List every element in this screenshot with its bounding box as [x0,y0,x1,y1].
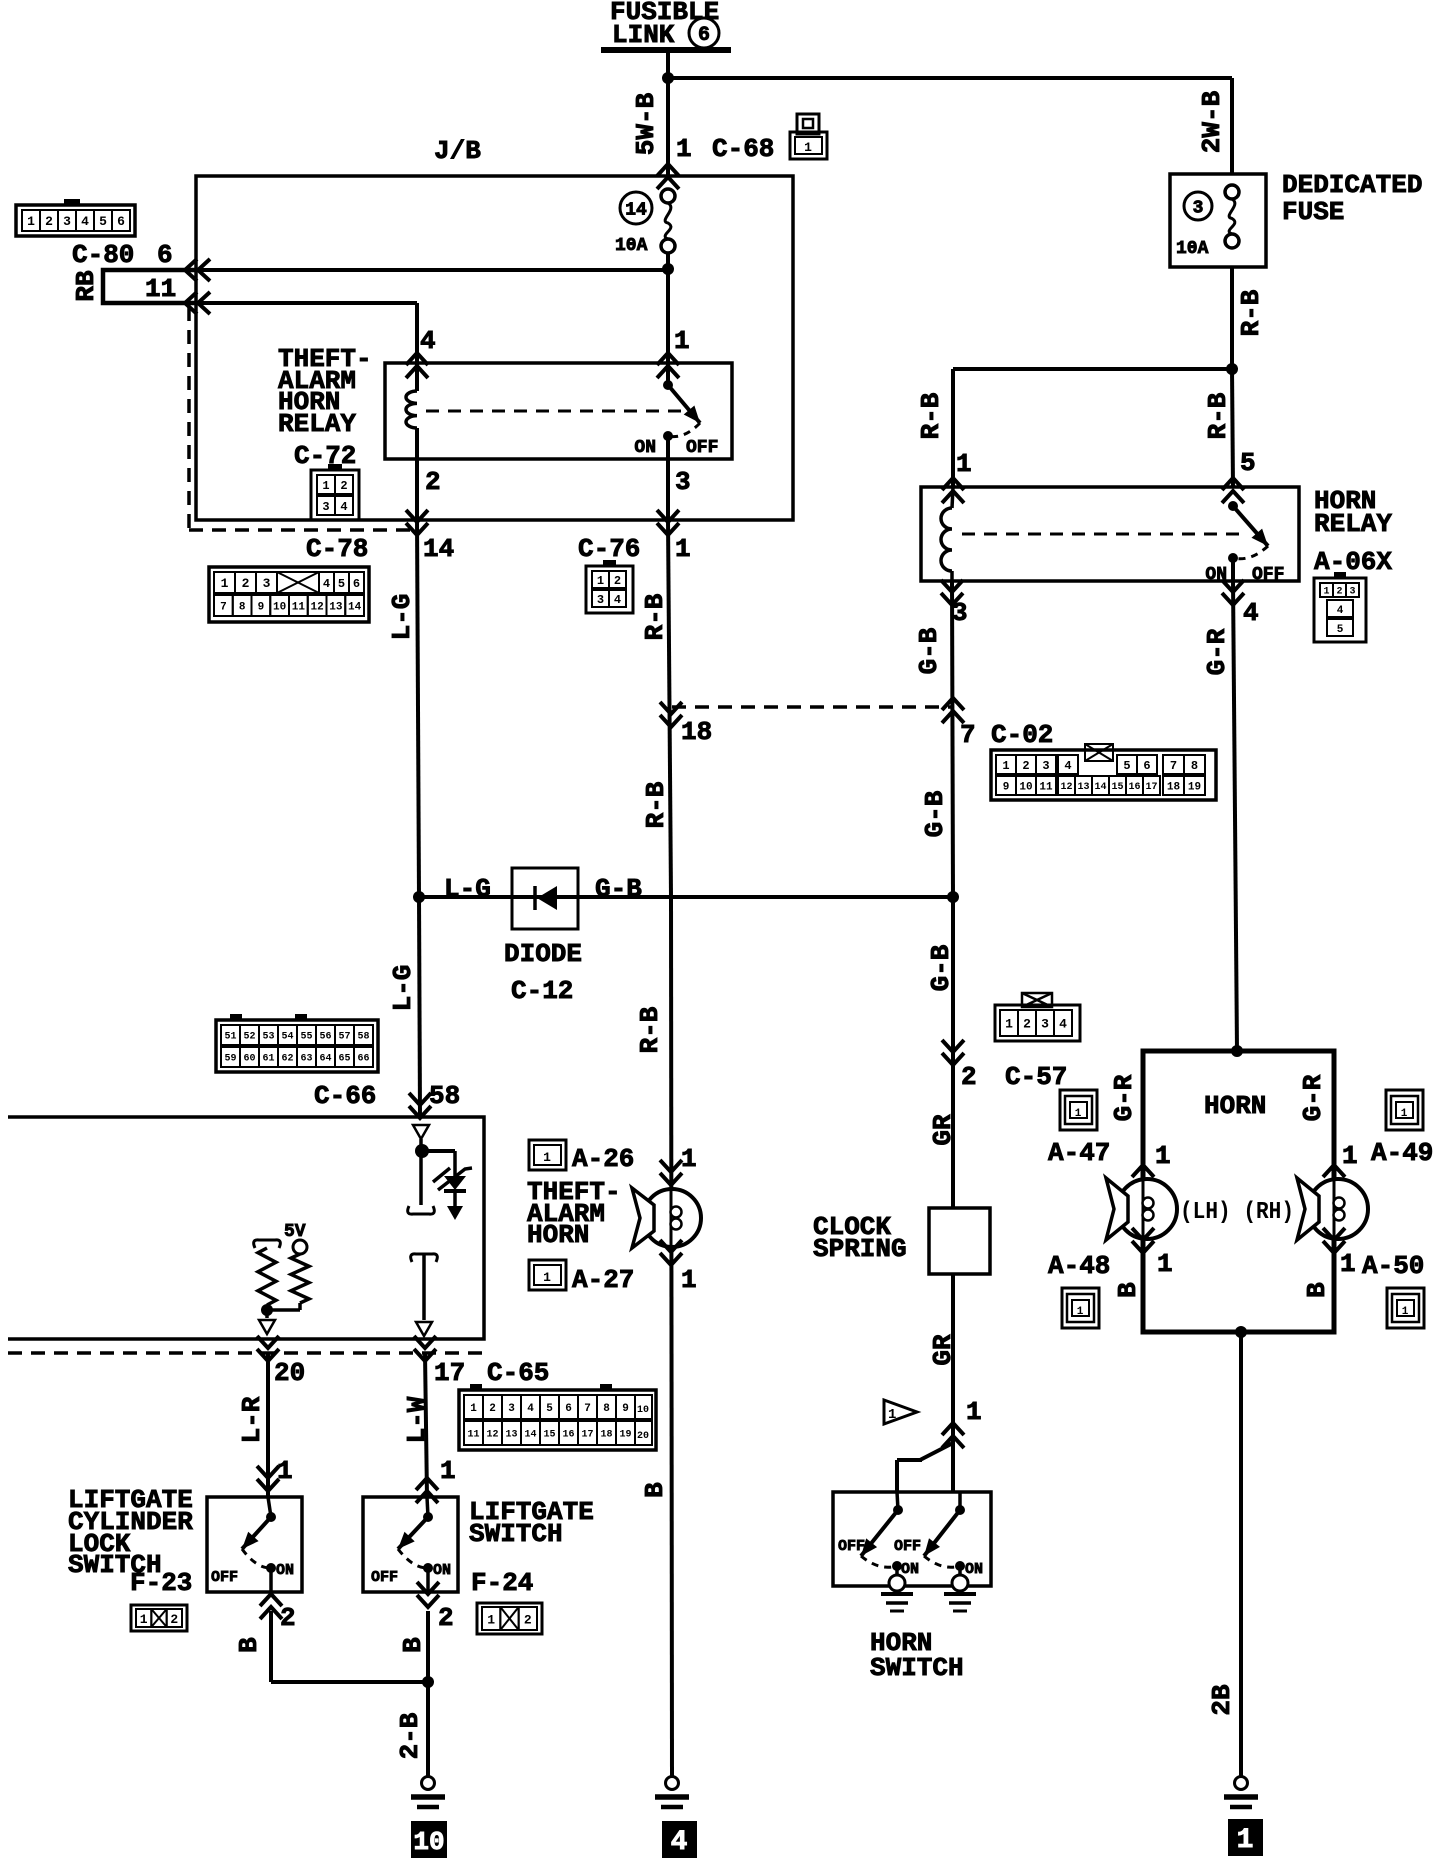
svg-text:2: 2 [489,1403,496,1415]
svg-text:B: B [640,1482,670,1498]
svg-text:58: 58 [429,1081,460,1111]
svg-text:L-G: L-G [444,874,491,904]
svg-text:12: 12 [311,601,324,613]
svg-text:ON: ON [276,1562,294,1579]
svg-text:3: 3 [508,1403,515,1415]
svg-text:4: 4 [614,593,621,607]
svg-text:C-68: C-68 [712,134,774,164]
svg-text:20: 20 [274,1358,305,1388]
svg-text:1: 1 [543,1270,551,1285]
svg-text:65: 65 [338,1054,350,1065]
svg-text:C-66: C-66 [314,1081,376,1111]
svg-text:2: 2 [340,479,347,493]
svg-text:5: 5 [1337,624,1344,636]
svg-text:51: 51 [224,1032,236,1043]
svg-text:A-26: A-26 [572,1144,634,1174]
svg-text:8: 8 [1191,759,1198,773]
svg-text:2: 2 [280,1603,296,1633]
svg-text:4: 4 [420,326,436,356]
svg-text:13: 13 [329,601,343,613]
svg-text:F-24: F-24 [471,1568,533,1598]
svg-text:FUSE: FUSE [1282,197,1344,227]
svg-text:14: 14 [625,200,647,220]
svg-text:13: 13 [1077,782,1089,793]
svg-text:16: 16 [562,1430,574,1441]
svg-text:3: 3 [675,467,691,497]
svg-text:12: 12 [486,1430,498,1441]
svg-text:6: 6 [157,240,173,270]
svg-text:1: 1 [956,449,972,479]
svg-text:B: B [234,1637,264,1653]
svg-text:56: 56 [319,1032,331,1043]
svg-text:F-23: F-23 [130,1568,192,1598]
svg-text:RELAY: RELAY [278,409,356,439]
svg-text:1: 1 [681,1265,697,1295]
svg-text:4: 4 [671,1827,688,1858]
svg-text:4: 4 [340,500,347,514]
svg-text:8: 8 [239,601,246,613]
svg-text:1: 1 [597,574,604,588]
svg-text:B: B [1113,1282,1143,1298]
svg-text:63: 63 [300,1054,312,1065]
svg-text:OFF: OFF [894,1538,921,1555]
svg-text:4: 4 [323,577,330,591]
svg-text:SWITCH: SWITCH [469,1519,563,1549]
svg-text:4: 4 [1064,759,1071,773]
svg-text:OFF: OFF [371,1569,398,1586]
svg-text:3: 3 [1349,587,1355,598]
svg-text:5: 5 [546,1403,553,1415]
svg-text:18: 18 [1167,781,1181,793]
svg-text:OFF: OFF [838,1538,865,1555]
svg-text:C-80: C-80 [72,240,134,270]
svg-text:7: 7 [584,1403,591,1415]
svg-text:A-49: A-49 [1371,1138,1433,1168]
svg-text:2: 2 [1336,587,1342,598]
svg-text:1: 1 [676,134,692,164]
svg-text:3: 3 [952,598,968,628]
svg-text:20: 20 [637,1431,649,1442]
svg-text:12: 12 [1060,782,1072,793]
svg-text:1: 1 [221,576,229,591]
svg-text:59: 59 [224,1054,236,1065]
svg-text:1: 1 [1342,1141,1358,1171]
svg-text:14: 14 [423,534,454,564]
svg-text:1: 1 [140,1612,148,1627]
svg-text:4: 4 [527,1403,534,1415]
svg-text:(LH) (RH): (LH) (RH) [1180,1199,1294,1226]
svg-text:11: 11 [467,1430,479,1441]
svg-text:18: 18 [600,1430,612,1441]
svg-text:64: 64 [319,1054,331,1065]
svg-text:G-R: G-R [1298,1074,1328,1121]
svg-text:R-B: R-B [640,593,670,640]
svg-text:1: 1 [966,1397,982,1427]
svg-text:1: 1 [1155,1141,1171,1171]
svg-text:17: 17 [1145,782,1157,793]
svg-text:5W-B: 5W-B [631,92,661,155]
svg-text:19: 19 [619,1430,631,1441]
svg-text:1: 1 [1402,1306,1409,1318]
svg-text:16: 16 [1128,782,1140,793]
svg-text:1: 1 [1002,759,1009,773]
svg-text:6: 6 [1143,759,1150,773]
svg-text:13: 13 [505,1430,517,1441]
svg-text:A-06X: A-06X [1314,547,1392,577]
svg-text:ON: ON [634,438,656,458]
svg-text:4: 4 [1059,1017,1067,1032]
svg-text:B: B [398,1637,428,1653]
svg-text:58: 58 [357,1032,369,1043]
svg-text:6: 6 [565,1403,572,1415]
svg-text:18: 18 [681,717,712,747]
svg-text:6: 6 [353,577,360,591]
svg-text:7: 7 [220,601,227,613]
svg-text:1: 1 [888,1407,896,1423]
svg-text:6: 6 [117,214,125,229]
svg-text:R-B: R-B [1203,392,1233,439]
svg-text:C-76: C-76 [578,534,640,564]
svg-text:B: B [1302,1282,1332,1298]
svg-text:53: 53 [262,1032,274,1043]
svg-text:L-G: L-G [387,594,417,641]
svg-text:11: 11 [292,601,306,613]
svg-text:15: 15 [543,1430,555,1441]
svg-text:OFF: OFF [1252,565,1284,585]
svg-text:5: 5 [99,214,107,229]
svg-text:SWITCH: SWITCH [870,1653,964,1683]
svg-text:3: 3 [1042,759,1049,773]
svg-text:8: 8 [603,1403,610,1415]
svg-text:11: 11 [145,274,176,304]
svg-text:2: 2 [438,1603,454,1633]
svg-text:10: 10 [273,601,286,613]
svg-text:G-B: G-B [920,790,950,837]
svg-text:3: 3 [263,576,271,591]
svg-text:ON: ON [901,1561,919,1578]
svg-text:19: 19 [1188,781,1201,793]
svg-text:GR: GR [928,1114,958,1146]
svg-text:L-W: L-W [402,1396,432,1443]
svg-text:5: 5 [1240,448,1256,478]
svg-text:2: 2 [425,467,441,497]
svg-text:G-B: G-B [595,874,642,904]
svg-text:1: 1 [1237,1825,1254,1856]
svg-text:1: 1 [487,1613,495,1628]
svg-text:2: 2 [1022,759,1029,773]
svg-text:1: 1 [1077,1306,1084,1318]
svg-text:17: 17 [581,1430,593,1441]
svg-text:ON: ON [965,1561,983,1578]
svg-text:OFF: OFF [211,1569,238,1586]
svg-text:4: 4 [1337,605,1344,617]
svg-text:10: 10 [1019,781,1032,793]
svg-text:1: 1 [674,326,690,356]
svg-text:3: 3 [597,593,604,607]
svg-text:C-65: C-65 [487,1358,549,1388]
svg-text:G-R: G-R [1109,1074,1139,1121]
svg-text:2: 2 [170,1612,178,1627]
svg-text:61: 61 [262,1054,274,1065]
svg-text:2: 2 [1023,1017,1031,1032]
svg-text:1: 1 [1323,587,1329,598]
svg-text:7: 7 [1170,759,1177,773]
svg-text:2B: 2B [1207,1684,1237,1716]
svg-text:1: 1 [470,1403,477,1415]
svg-text:OFF: OFF [686,438,718,458]
svg-text:10: 10 [637,1405,649,1416]
svg-text:1: 1 [322,479,329,493]
svg-text:L-G: L-G [388,965,418,1012]
svg-text:1: 1 [1005,1017,1013,1032]
svg-text:2: 2 [614,574,621,588]
svg-text:A-48: A-48 [1048,1251,1110,1281]
svg-text:2: 2 [242,576,250,591]
svg-text:9: 9 [258,601,265,613]
svg-text:L-R: L-R [237,1396,267,1443]
svg-text:7: 7 [960,720,976,750]
svg-text:J/B: J/B [434,136,481,166]
svg-text:62: 62 [281,1054,293,1065]
svg-text:52: 52 [243,1032,255,1043]
svg-text:A-47: A-47 [1048,1138,1110,1168]
svg-text:G-B: G-B [914,627,944,674]
svg-text:R-B: R-B [641,781,671,828]
svg-text:14: 14 [1094,782,1106,793]
svg-text:HORN: HORN [527,1220,589,1250]
svg-text:1: 1 [675,534,691,564]
svg-text:14: 14 [348,601,362,613]
svg-text:2: 2 [524,1613,532,1628]
svg-text:60: 60 [243,1054,255,1065]
svg-text:54: 54 [281,1032,293,1043]
svg-text:LINK: LINK [612,20,675,50]
svg-text:ON: ON [433,1562,451,1579]
svg-text:1: 1 [440,1456,456,1486]
svg-text:G-R: G-R [1202,628,1232,675]
svg-text:1: 1 [1157,1249,1173,1279]
svg-text:1: 1 [543,1150,551,1165]
svg-text:C-72: C-72 [294,441,356,471]
svg-text:10A: 10A [1176,239,1209,259]
svg-text:3: 3 [322,500,329,514]
svg-text:10A: 10A [615,236,648,256]
svg-text:C-78: C-78 [306,534,368,564]
svg-text:1: 1 [1340,1249,1356,1279]
svg-text:3: 3 [1193,198,1204,218]
svg-text:57: 57 [338,1032,350,1043]
svg-text:R-B: R-B [1236,289,1266,336]
svg-text:9: 9 [622,1403,629,1415]
svg-text:DEDICATED: DEDICATED [1282,170,1422,200]
svg-text:3: 3 [63,214,71,229]
svg-text:C-12: C-12 [511,976,573,1006]
svg-text:9: 9 [1003,781,1010,793]
svg-text:11: 11 [1039,781,1053,793]
svg-text:R-B: R-B [916,392,946,439]
svg-text:2: 2 [45,214,53,229]
svg-text:1: 1 [1075,1108,1082,1120]
svg-text:A-27: A-27 [572,1265,634,1295]
svg-text:RB: RB [71,270,101,302]
svg-text:5: 5 [338,577,345,591]
svg-text:4: 4 [1243,598,1259,628]
svg-text:5: 5 [1123,759,1130,773]
svg-text:1: 1 [277,1456,293,1486]
svg-text:C-02: C-02 [991,720,1053,750]
svg-text:1: 1 [681,1144,697,1174]
svg-text:DIODE: DIODE [504,939,582,969]
svg-text:2W-B: 2W-B [1197,90,1227,153]
svg-text:2: 2 [961,1062,977,1092]
svg-text:RELAY: RELAY [1314,509,1392,539]
svg-text:HORN: HORN [1204,1091,1266,1121]
svg-text:10: 10 [413,1827,444,1857]
svg-text:6: 6 [698,24,710,47]
svg-text:14: 14 [524,1430,536,1441]
svg-text:3: 3 [1041,1017,1049,1032]
svg-text:4: 4 [81,214,89,229]
svg-text:17: 17 [434,1358,465,1388]
svg-text:SPRING: SPRING [813,1234,907,1264]
svg-text:55: 55 [300,1032,312,1043]
svg-text:1: 1 [1401,1108,1408,1120]
svg-text:A-50: A-50 [1362,1251,1424,1281]
svg-text:1: 1 [27,214,35,229]
svg-text:C-57: C-57 [1005,1062,1067,1092]
svg-text:66: 66 [357,1054,369,1065]
svg-text:1: 1 [804,140,812,155]
svg-text:R-B: R-B [635,1006,665,1053]
svg-text:15: 15 [1111,782,1123,793]
svg-text:2-B: 2-B [395,1712,425,1759]
svg-text:GR: GR [928,1334,958,1366]
